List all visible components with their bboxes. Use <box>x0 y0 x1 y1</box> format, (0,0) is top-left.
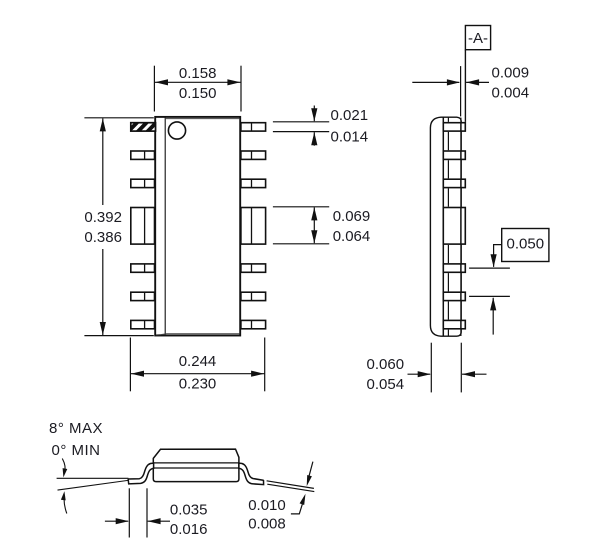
leads 4-5 (wide) (side view) <box>443 208 465 245</box>
pin 11 (wide lead) (top view right) <box>241 208 266 245</box>
lead pitch leader arrow (down) <box>491 245 502 268</box>
svg-text:0.069: 0.069 <box>333 208 371 225</box>
svg-text:0.004: 0.004 <box>492 84 530 101</box>
lead 1 (side view) <box>443 123 465 131</box>
right lead gull-wing (end view) <box>239 463 264 485</box>
IC package body outline (top view) <box>155 117 240 336</box>
dimension 0.060/0.054 (body thickness) <box>367 343 487 393</box>
svg-text:0.244: 0.244 <box>179 353 217 370</box>
lead thickness arrow (upper) <box>307 462 313 487</box>
label 0.010 <box>248 497 286 514</box>
pin 10 (top view right) <box>241 264 266 272</box>
left lead gull-wing (end view) <box>128 463 153 484</box>
mold parting line (end view) <box>153 462 239 464</box>
lead pitch extension line (upper) <box>469 267 510 269</box>
pin 3 (top view left) <box>131 179 155 187</box>
lead frame line (side view) <box>442 117 444 336</box>
dimension 0.244/0.230 (overall width) <box>130 338 264 393</box>
svg-text:0.392: 0.392 <box>84 209 122 226</box>
lead 7 (side view) <box>443 320 465 328</box>
lead section line (lower) <box>267 484 314 491</box>
label 0.008 <box>248 515 286 532</box>
pin 9 (top view right) <box>241 292 266 300</box>
svg-text:0.010: 0.010 <box>248 497 286 514</box>
svg-text:0.008: 0.008 <box>248 515 286 532</box>
svg-text:0.016: 0.016 <box>170 521 208 538</box>
lead thickness arrow (lower) <box>291 494 306 514</box>
pin 8 (top view right) <box>241 320 266 328</box>
lead 6 (side view) <box>443 292 465 300</box>
svg-text:-A-: -A- <box>468 30 488 47</box>
body step line (side view) <box>447 118 449 336</box>
svg-text:0.009: 0.009 <box>492 65 530 82</box>
pin 1 indicator circle <box>168 122 185 139</box>
dimension 0.158/0.150 (body width) <box>154 65 241 112</box>
angle leader arrow (to 8 deg line) <box>61 491 67 513</box>
svg-text:0.021: 0.021 <box>331 107 369 124</box>
svg-text:0.230: 0.230 <box>179 376 217 393</box>
body inner edge line (bottom) <box>156 334 239 335</box>
svg-text:0.035: 0.035 <box>170 502 208 519</box>
svg-text:0.060: 0.060 <box>367 356 405 373</box>
svg-text:0.054: 0.054 <box>367 376 405 393</box>
pin 14 (top view right) <box>241 123 266 131</box>
svg-text:0.050: 0.050 <box>507 235 545 252</box>
lead pitch arrow (up) <box>490 297 496 334</box>
lead 5 (side view) <box>443 264 465 272</box>
label 8 deg MAX <box>49 420 103 437</box>
IC body outline (side view) <box>430 117 461 336</box>
svg-text:8° MAX: 8° MAX <box>49 420 103 437</box>
dimension 0.392/0.386 (body length) <box>84 118 153 336</box>
angle leader arrow (to 0 deg line) <box>62 459 67 478</box>
datum symbol -A- <box>465 26 490 50</box>
body right edge line (side view) <box>460 118 462 336</box>
svg-text:0.386: 0.386 <box>84 229 122 246</box>
svg-text:0.150: 0.150 <box>179 85 217 102</box>
svg-text:0° MIN: 0° MIN <box>52 442 101 459</box>
lead exit line (end view) <box>153 467 239 469</box>
label 0 deg MIN <box>52 442 101 459</box>
IC body outline (end view) <box>153 449 239 482</box>
body inner edge line (left) <box>164 118 166 335</box>
pin 1 (hatched, top view left) <box>126 120 169 134</box>
pin 6 (top view left) <box>131 292 155 300</box>
body edge extension line (side view top) <box>460 66 462 116</box>
dimension 0.021/0.014 (lead width) <box>273 106 368 146</box>
pin 7 (top view left) <box>131 320 155 328</box>
body inner edge line (top) <box>166 118 240 120</box>
pin 13 (top view right) <box>241 151 266 159</box>
dimension 0.069/0.064 (wide lead width) <box>273 207 370 245</box>
pin 2 (top view left) <box>131 151 155 159</box>
svg-text:0.014: 0.014 <box>331 129 369 146</box>
lead 3 (side view) <box>443 179 465 187</box>
pin 4 (wide lead) (top view left) <box>131 208 155 245</box>
lead section line (upper) <box>267 481 314 489</box>
datum extension line <box>464 50 466 122</box>
dimension 0.050 (lead pitch) label box <box>502 229 549 262</box>
dimension 0.009/0.004 (lead tip) <box>412 65 529 102</box>
lead 2 (side view) <box>443 151 465 159</box>
tilted plane line (8 deg) <box>58 480 129 490</box>
pin 12 (top view right) <box>241 179 266 187</box>
seating plane line (0 deg) <box>57 477 129 479</box>
dimension 0.035/0.016 (foot length) <box>105 488 208 538</box>
svg-text:0.158: 0.158 <box>179 65 217 82</box>
svg-text:0.064: 0.064 <box>333 228 371 245</box>
lead pitch extension line (lower) <box>469 295 510 297</box>
pin 5 (top view left) <box>131 264 155 272</box>
